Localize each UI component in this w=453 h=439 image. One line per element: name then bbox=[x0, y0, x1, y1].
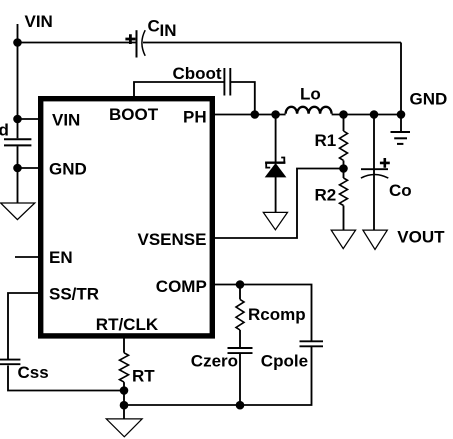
svg-text:SS/TR: SS/TR bbox=[49, 284, 99, 303]
svg-text:GND: GND bbox=[410, 89, 448, 108]
svg-text:VOUT: VOUT bbox=[397, 228, 445, 247]
svg-text:VIN: VIN bbox=[52, 111, 80, 130]
svg-text:R2: R2 bbox=[315, 185, 337, 204]
svg-text:VSENSE: VSENSE bbox=[138, 230, 207, 249]
svg-text:RT/CLK: RT/CLK bbox=[96, 315, 159, 334]
svg-text:EN: EN bbox=[49, 248, 73, 267]
svg-text:BOOT: BOOT bbox=[109, 105, 159, 124]
svg-text:R1: R1 bbox=[315, 131, 337, 150]
svg-text:RT: RT bbox=[132, 367, 155, 386]
svg-text:C: C bbox=[148, 17, 160, 36]
svg-text:PH: PH bbox=[183, 107, 207, 126]
svg-text:Lo: Lo bbox=[300, 84, 321, 103]
svg-text:d: d bbox=[0, 120, 9, 139]
svg-text:Rcomp: Rcomp bbox=[248, 305, 306, 324]
svg-text:IN: IN bbox=[160, 21, 177, 40]
svg-text:VIN: VIN bbox=[25, 12, 53, 31]
svg-text:COMP: COMP bbox=[156, 277, 207, 296]
svg-text:Cpole: Cpole bbox=[261, 351, 308, 370]
svg-text:Cboot: Cboot bbox=[173, 64, 222, 83]
svg-text:GND: GND bbox=[49, 159, 87, 178]
svg-text:Co: Co bbox=[389, 181, 412, 200]
svg-text:Czero: Czero bbox=[191, 351, 238, 370]
svg-text:Css: Css bbox=[18, 363, 49, 382]
